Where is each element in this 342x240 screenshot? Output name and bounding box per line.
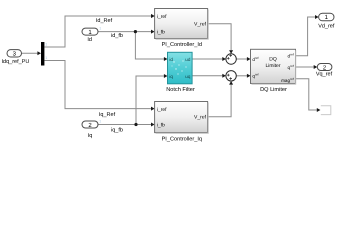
svg-text:1: 1 [99,26,101,30]
svg-text:PI_Controller_Id: PI_Controller_Id [162,41,202,48]
svg-text:i_fb: i_fb [157,122,165,128]
svg-text:id_fb: id_fb [111,33,123,39]
svg-text:V_ref: V_ref [194,114,207,120]
svg-text:PI_Controller_Iq: PI_Controller_Iq [162,136,202,143]
svg-text:ref: ref [255,56,259,60]
svg-text:Iq_Ref: Iq_Ref [99,112,116,118]
svg-text:ud: ud [185,57,191,62]
svg-text:1: 1 [45,56,47,60]
svg-text:mag: mag [281,78,290,83]
svg-text:1: 1 [45,43,47,47]
svg-text:DQ Limiter: DQ Limiter [260,86,287,93]
svg-text:DQ: DQ [269,57,277,63]
svg-text:ref: ref [255,73,259,77]
svg-text:i_ref: i_ref [157,14,167,20]
svg-text:Vd_ref: Vd_ref [318,24,335,30]
svg-text:i_ref: i_ref [157,107,167,113]
svg-text:V_ref: V_ref [194,21,207,27]
svg-text:Limiter: Limiter [265,63,280,69]
svg-text:Id: Id [87,37,92,43]
svg-text:iq: iq [169,74,173,79]
svg-text:ref: ref [290,52,294,56]
svg-text:Idq_ref_PU: Idq_ref_PU [1,59,29,65]
svg-text:Id_Ref: Id_Ref [96,18,113,24]
svg-text:ref: ref [290,77,294,81]
svg-text:id: id [169,57,173,62]
svg-text:i_fb: i_fb [157,29,165,35]
svg-text:ref: ref [290,64,294,68]
svg-text:iq_fb: iq_fb [111,127,123,133]
svg-text:Notch Filter: Notch Filter [166,86,195,93]
svg-text:Vq_ref: Vq_ref [316,72,333,78]
svg-text:uq: uq [185,74,191,79]
svg-text:1: 1 [99,119,101,123]
svg-text:Iq: Iq [88,133,93,139]
